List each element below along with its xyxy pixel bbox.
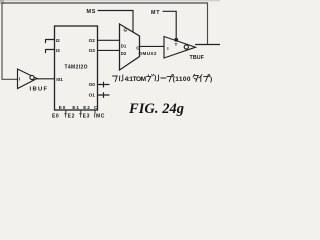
- svg-text:IMC: IMC: [94, 114, 105, 120]
- svg-text:E1: E1: [72, 105, 79, 110]
- svg-text:OMUX2: OMUX2: [139, 51, 157, 56]
- svg-text:O: O: [136, 45, 140, 50]
- svg-text:TE2: TE2: [64, 114, 75, 120]
- svg-text:G: G: [124, 28, 128, 33]
- svg-text:I3: I3: [56, 48, 60, 53]
- svg-text:O2: O2: [89, 38, 96, 43]
- svg-text:I2: I2: [56, 38, 60, 43]
- svg-text:O1: O1: [89, 92, 96, 97]
- svg-text:D2: D2: [121, 51, 127, 56]
- svg-text:O0: O0: [89, 82, 96, 87]
- svg-text:T: T: [175, 42, 178, 47]
- svg-text:MS: MS: [87, 9, 97, 15]
- svg-text:FIG. 24g: FIG. 24g: [128, 101, 184, 117]
- svg-text:): ): [210, 76, 212, 83]
- svg-text:IBUF: IBUF: [30, 87, 48, 93]
- svg-text:O3: O3: [89, 48, 96, 53]
- svg-text:C: C: [94, 105, 98, 110]
- svg-text:TBUF: TBUF: [190, 55, 205, 61]
- svg-text:E0: E0: [52, 114, 59, 120]
- svg-text:MT: MT: [151, 10, 160, 16]
- svg-text:T4M2I2O: T4M2I2O: [65, 65, 88, 71]
- svg-text:I: I: [19, 77, 20, 82]
- svg-text:I01: I01: [56, 77, 63, 82]
- svg-text:D1: D1: [121, 43, 127, 48]
- svg-text:E0: E0: [59, 105, 66, 110]
- svg-text:(1100: (1100: [173, 76, 191, 83]
- svg-text:4:1TOM: 4:1TOM: [125, 76, 147, 83]
- svg-text:E2: E2: [83, 105, 90, 110]
- svg-text:I: I: [167, 46, 168, 51]
- svg-text:TE3: TE3: [79, 114, 90, 120]
